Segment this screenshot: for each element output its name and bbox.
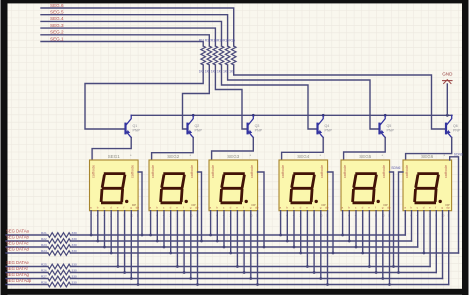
junction on emitter rail	[192, 114, 195, 117]
display SEG1 left cathode pin name	[91, 165, 95, 178]
wire Q2 collector to SEG2 common pin	[152, 137, 194, 160]
wire SEG2 pin e to data bus	[176, 211, 178, 267]
wire SEG2 pin c to data bus	[163, 211, 165, 247]
transistor Q6 designator	[453, 124, 458, 128]
junction SEG2.e	[176, 265, 179, 268]
svg-text:cathode: cathode	[320, 165, 324, 178]
wire SEG6 top-right cathode loop to bus d	[450, 157, 459, 253]
net label SEG DATAb	[6, 235, 30, 240]
junction SEG3.a	[209, 234, 212, 237]
wire GND to rail	[446, 84, 448, 115]
display SEG2 left cathode pin name	[151, 165, 155, 178]
junction SEG5.d	[361, 252, 364, 255]
wire data bus SEG DATAd	[6, 251, 459, 256]
wire net SEG.2 horizontal run and drop to resistor	[41, 35, 209, 46]
display SEG4 decimal point	[315, 200, 318, 203]
junction SEG1.a	[90, 234, 93, 237]
resistor R13 (vertical, base resistor)	[213, 46, 218, 65]
7-segment display SEG6 body	[403, 160, 452, 211]
wire SEG3 pin b to data bus	[216, 211, 218, 241]
transistor Q6 type label PNP	[453, 128, 461, 132]
junction SEG1.c	[103, 246, 106, 249]
junction SEG3.c	[223, 246, 226, 249]
svg-text:R27: R27	[41, 274, 47, 278]
wire SEG5 pin f to data bus	[375, 211, 377, 273]
transistor Q1 type label PNP	[133, 128, 141, 132]
transistor Q6 PNP symbol	[446, 115, 452, 137]
display SEG3 left cathode pin name	[211, 165, 215, 178]
wire SEG6 left cathode down to bus	[399, 172, 404, 273]
junction SEG3.dp	[256, 283, 259, 286]
wire SEG1 pin dp to data bus	[137, 211, 139, 285]
svg-text:cathode: cathode	[131, 165, 135, 178]
wire SEG5 right cathode down to bus	[390, 172, 394, 267]
svg-text:R11: R11	[199, 39, 205, 43]
ground GND label	[442, 72, 453, 77]
junction SEG2.c	[163, 246, 166, 249]
svg-text:SEG6: SEG6	[421, 154, 434, 159]
display SEG4 pin numbers	[279, 214, 328, 218]
svg-text:R22: R22	[41, 237, 47, 241]
display SEG3 pin numbers	[209, 214, 258, 218]
wire SEG1 right cathode down to bus	[138, 172, 142, 235]
junction SEG3.b	[216, 240, 219, 243]
net label SEG DATAd	[6, 247, 30, 252]
display SEG6 left cathode pin name	[405, 165, 409, 178]
wire resistor R15 to Q5 base	[228, 65, 379, 129]
net label SEG.1	[50, 36, 64, 41]
wire SEG6 pin g to data bus end	[442, 211, 444, 279]
svg-text:DP: DP	[322, 203, 326, 207]
net label SEG.3	[50, 23, 64, 28]
junction SEG5.b	[348, 240, 351, 243]
resistor R24 designator	[41, 249, 47, 253]
svg-text:330: 330	[72, 274, 77, 278]
display SEG6 dp corner mark	[446, 203, 450, 207]
wire SEG1 pin d to data bus	[110, 211, 112, 253]
resistor R21 designator	[41, 231, 47, 235]
svg-text:DP: DP	[446, 203, 450, 207]
wire SEG6 pin b to data bus end	[411, 211, 413, 241]
display SEG5 top-right pin marker	[382, 153, 384, 158]
wire SEG2 pin f to data bus	[183, 211, 185, 273]
ground GND power port symbol	[443, 80, 452, 84]
wire resistor R13 to Q3 base	[215, 65, 246, 129]
wire Q1 collector to SEG1 common pin	[92, 137, 131, 160]
svg-text:SEG3: SEG3	[227, 154, 240, 159]
wire SEG1 pin b to data bus	[97, 211, 99, 241]
junction SEG3.g	[249, 277, 252, 280]
7-segment display SEG5 body	[341, 160, 390, 211]
wire SEG6 pin c to data bus end	[417, 211, 419, 247]
transistor Q3 type label PNP	[255, 128, 263, 132]
svg-text:SEG DATAdp: SEG DATAdp	[6, 278, 32, 283]
svg-text:DP: DP	[252, 203, 256, 207]
svg-text:DP: DP	[132, 203, 136, 207]
display SEG2 pin numbers	[149, 214, 198, 218]
svg-text:cathode: cathode	[444, 165, 448, 178]
svg-text:330: 330	[72, 231, 77, 235]
junction SEG2.b	[156, 240, 159, 243]
display SEG4 top-right pin marker	[320, 153, 322, 158]
wire SEG2 pin d to data bus	[170, 211, 172, 253]
display SEG4 right cathode pin name	[320, 165, 324, 178]
resistor R15 (vertical, base resistor)	[225, 46, 230, 65]
display SEG4 designator	[297, 154, 310, 159]
resistor R14 designator label	[217, 39, 223, 43]
7-segment display SEG3 body	[209, 160, 258, 211]
wire SEG6 pin d to data bus end	[423, 211, 425, 253]
wire SEG3 right cathode down to bus	[258, 172, 264, 247]
wire resistor R14 to Q4 base	[222, 65, 317, 129]
svg-text:R21: R21	[41, 231, 47, 235]
svg-text:330: 330	[72, 268, 77, 272]
wire data bus SEG DATAb	[6, 239, 412, 244]
wire SEG6 pin a to data bus end	[404, 211, 406, 235]
junction SEG1.dp	[137, 283, 140, 286]
svg-text:cathode: cathode	[91, 165, 95, 178]
junction SEG2.d	[169, 252, 172, 255]
wire Q5 collector to SEG5 common pin	[344, 137, 386, 160]
wire SEG6 pin e to data bus end	[429, 211, 431, 267]
wire SEG4 pin c to data bus	[293, 211, 295, 247]
junction SEG2.dp	[196, 283, 199, 286]
resistor R12 designator label	[205, 39, 211, 43]
wire SEG4 pin a to data bus	[280, 211, 282, 235]
resistor R23 value	[72, 243, 77, 247]
wire SEG2 pin dp to data bus	[197, 211, 199, 285]
svg-text:DP: DP	[384, 203, 388, 207]
junction SEG4.f	[313, 271, 316, 274]
display SEG5 dp corner mark	[384, 203, 388, 207]
junction SEG1.b	[96, 240, 99, 243]
transistor Q2 type label PNP	[195, 128, 203, 132]
wire resistor R16 to Q6 base	[234, 65, 445, 129]
svg-text:PNP: PNP	[325, 128, 333, 132]
junction SEG5.a	[341, 234, 344, 237]
junction cathode tap	[200, 240, 203, 243]
svg-text:SEG5: SEG5	[359, 154, 372, 159]
display SEG5 left cathode pin name	[343, 165, 347, 178]
display SEG6 digit 8 segments	[415, 174, 439, 203]
svg-text:330: 330	[72, 280, 77, 284]
net label SEG DATAf	[6, 266, 29, 271]
display SEG6 decimal point	[439, 200, 442, 203]
resistor R25 designator	[41, 262, 47, 266]
wire SEG3 pin a to data bus	[210, 211, 212, 235]
resistor R27 value	[72, 274, 77, 278]
junction SEG3.e	[236, 265, 239, 268]
svg-text:SEG DATAd: SEG DATAd	[6, 247, 30, 252]
transistor Q4 PNP symbol	[318, 115, 324, 137]
wire SEG4 pin e to data bus	[306, 211, 308, 267]
resistor R15 designator label	[223, 39, 229, 43]
display SEG3 dp corner mark	[252, 203, 256, 207]
junction SEG5.f	[375, 271, 378, 274]
display SEG4 dp corner mark	[322, 203, 326, 207]
resistor R14 value label	[217, 70, 222, 74]
transistor Q3 PNP symbol	[248, 115, 254, 137]
svg-text:SEG4: SEG4	[297, 154, 310, 159]
wire SEG5 pin d to data bus	[362, 211, 364, 253]
svg-text:SEG DATAf: SEG DATAf	[6, 266, 29, 271]
svg-text:R25: R25	[41, 262, 47, 266]
junction cathode tap	[392, 265, 395, 268]
net label SEG DATAc	[6, 241, 29, 246]
wire data bus SEG DATAa	[6, 233, 405, 238]
display SEG4 segment pin names a-dp	[280, 206, 329, 210]
transistor Q5 designator	[387, 124, 392, 128]
junction cathode tap	[397, 271, 400, 274]
wire Q3 collector to SEG3 common pin	[212, 137, 254, 160]
wire data bus SEG DATAe	[6, 264, 430, 269]
resistor R24 value	[72, 249, 77, 253]
display SEG1 digit 8 segments	[101, 174, 125, 203]
net label SEG DATAe	[6, 260, 30, 265]
svg-text:SEG1: SEG1	[108, 154, 121, 159]
junction on emitter rail	[322, 114, 325, 117]
wire SEG4 pin d to data bus	[300, 211, 302, 253]
wire SEG4 pin f to data bus	[313, 211, 315, 273]
display SEG2 dp corner mark	[192, 203, 196, 207]
junction SEG4.a	[279, 234, 282, 237]
transistor Q5 PNP symbol	[380, 115, 386, 137]
transistor Q1 PNP symbol	[126, 115, 132, 137]
svg-text:SEG DATAb: SEG DATAb	[6, 235, 30, 240]
resistor R16 value label	[229, 70, 234, 74]
junction cathode tap	[263, 246, 266, 249]
display SEG6 top-right pin marker	[444, 153, 446, 158]
resistor R22 designator	[41, 237, 47, 241]
wire Q4 collector to SEG4 common pin	[282, 137, 324, 160]
wire SEG6 pin f to data bus end	[435, 211, 437, 273]
wire SEG1 pin g to data bus	[130, 211, 132, 279]
7-segment display SEG1 body	[90, 160, 139, 211]
7-segment display SEG2 body	[149, 160, 198, 211]
display SEG2 designator	[167, 154, 180, 159]
svg-text:R24: R24	[41, 249, 47, 253]
junction SEG2.f	[183, 271, 186, 274]
junction cathode tap	[332, 252, 335, 255]
wire SEG5 pin a to data bus	[342, 211, 344, 235]
net label SEG.2	[50, 30, 64, 35]
display SEG1 top-right pin marker	[130, 153, 132, 158]
svg-text:PNP: PNP	[255, 128, 263, 132]
display SEG5 decimal point	[377, 200, 380, 203]
svg-text:SEG.6: SEG.6	[50, 3, 64, 8]
resistor R23 designator	[41, 243, 47, 247]
junction on emitter rail	[384, 114, 387, 117]
display SEG2 segment pin names a-dp	[150, 206, 199, 210]
transistor Q5 type label PNP	[387, 128, 395, 132]
net label SEG.6	[50, 3, 64, 8]
svg-text:R26: R26	[41, 268, 47, 272]
junction SEG4.b	[286, 240, 289, 243]
junction SEG2.a	[149, 234, 152, 237]
junction SEG3.d	[229, 252, 232, 255]
svg-text:SEG DATAg: SEG DATAg	[6, 272, 30, 277]
display SEG6 right cathode pin name	[444, 165, 448, 178]
junction SEG4.c	[293, 246, 296, 249]
transistor Q3 designator	[255, 124, 260, 128]
wire SEG5 pin dp to data bus	[389, 211, 391, 285]
display SEG5 pin numbers	[341, 214, 390, 218]
resistor R12 value label	[205, 70, 210, 74]
display SEG5 digit 8 segments	[353, 174, 377, 203]
display SEG2 digit 8 segments	[161, 174, 185, 203]
transistor Q2 designator	[195, 124, 200, 128]
wire SEG5 pin b to data bus	[348, 211, 350, 241]
display SEG3 right cathode pin name	[250, 165, 254, 178]
svg-text:330: 330	[72, 249, 77, 253]
svg-text:PNP: PNP	[133, 128, 141, 132]
resistor R12 (vertical, base resistor)	[207, 46, 212, 65]
wire SEG1 pin f to data bus	[124, 211, 126, 273]
svg-text:DP: DP	[192, 203, 196, 207]
junction SEG5.g	[381, 277, 384, 280]
resistor R28 value	[72, 280, 77, 284]
svg-text:R28: R28	[41, 280, 47, 284]
junction GND tap on rail	[446, 114, 449, 117]
wire SEG4 pin b to data bus	[286, 211, 288, 241]
svg-text:cathode: cathode	[382, 165, 386, 178]
transistor Q2 PNP symbol	[188, 115, 194, 137]
wire emitter supply rail	[131, 114, 452, 116]
wire data bus SEG DATAdp	[6, 282, 449, 287]
resistor R11 value label	[199, 70, 204, 74]
wire net SEG.6 horizontal run and drop to resistor	[41, 8, 234, 46]
wire SEG3 pin dp to data bus	[257, 211, 259, 285]
svg-text:PNP: PNP	[387, 128, 395, 132]
display SEG1 designator	[108, 154, 121, 159]
wire net SEG.3 horizontal run and drop to resistor	[41, 28, 215, 46]
wire data bus SEG DATAg	[6, 276, 443, 281]
svg-text:PNP: PNP	[195, 128, 203, 132]
wire SEG1 pin e to data bus	[117, 211, 119, 267]
svg-text:R23: R23	[41, 243, 47, 247]
wire SEG3 pin e to data bus	[236, 211, 238, 267]
display SEG1 decimal point	[125, 200, 128, 203]
resistor R27 designator	[41, 274, 47, 278]
wire SEG2 pin b to data bus	[156, 211, 158, 241]
wire data bus SEG DATAc	[6, 245, 418, 250]
display SEG3 decimal point	[245, 200, 248, 203]
svg-text:330: 330	[72, 243, 77, 247]
svg-text:cathode: cathode	[405, 165, 409, 178]
wire SEG2 pin g to data bus	[190, 211, 192, 279]
wire SEG2 pin a to data bus	[150, 211, 152, 235]
wire SEG4 pin dp to data bus	[327, 211, 329, 285]
wire SEG5 pin c to data bus	[355, 211, 357, 247]
resistor R28 designator	[41, 280, 47, 284]
svg-text:R16: R16	[229, 39, 235, 43]
display SEG1 right cathode pin name	[131, 165, 135, 178]
svg-text:cathode: cathode	[190, 165, 194, 178]
junction SEG2.g	[189, 277, 192, 280]
svg-text:SDN6: SDN6	[454, 152, 463, 156]
svg-text:330: 330	[72, 262, 77, 266]
resistor R15 value label	[223, 70, 228, 74]
display SEG2 decimal point	[185, 200, 188, 203]
net label SEG.5	[50, 10, 64, 15]
svg-text:SEG.4: SEG.4	[50, 16, 64, 21]
svg-text:cathode: cathode	[281, 165, 285, 178]
wire SEG1 pin c to data bus	[104, 211, 106, 247]
display SEG3 segment pin names a-dp	[210, 206, 259, 210]
wire SEG3 pin c to data bus	[223, 211, 225, 247]
junction SEG5.c	[355, 246, 358, 249]
resistor R21 value	[72, 231, 77, 235]
wire resistor R11 to Q1 base	[85, 65, 203, 129]
display SEG1 pin numbers	[90, 214, 139, 218]
display SEG1 segment pin names a-dp	[90, 206, 139, 210]
resistor R22 value	[72, 237, 77, 241]
wire net SEG.4 horizontal run and drop to resistor	[41, 21, 222, 46]
junction SEG6.d on data bus d	[423, 252, 426, 255]
resistor R13 value label	[211, 70, 216, 74]
wire SEG5 pin e to data bus	[368, 211, 370, 267]
net label SDN6 left	[391, 166, 400, 170]
resistor R11 (vertical, base resistor)	[201, 46, 206, 65]
display SEG5 designator	[359, 154, 372, 159]
svg-text:SEG.1: SEG.1	[50, 36, 64, 41]
resistor R14 (vertical, base resistor)	[219, 46, 224, 65]
resistor R11 designator label	[199, 39, 205, 43]
display SEG3 top-right pin marker	[250, 153, 252, 158]
display SEG2 top-right pin marker	[190, 153, 192, 158]
wire SEG3 pin f to data bus	[243, 211, 245, 273]
display SEG5 segment pin names a-dp	[342, 206, 391, 210]
display SEG3 digit 8 segments	[221, 174, 245, 203]
svg-text:cathode: cathode	[343, 165, 347, 178]
svg-text:SEG DATAc: SEG DATAc	[6, 241, 29, 246]
junction SEG4.dp	[326, 283, 329, 286]
display SEG6 designator	[421, 154, 434, 159]
wire resistor R12 to Q2 base	[183, 65, 210, 129]
junction SEG1.e	[117, 265, 120, 268]
junction SEG4.e	[306, 265, 309, 268]
transistor Q1 designator	[133, 124, 138, 128]
display SEG4 digit 8 segments	[291, 174, 315, 203]
wire SEG1 pin a to data bus	[90, 211, 92, 235]
svg-text:SEG.3: SEG.3	[50, 23, 64, 28]
display SEG5 right cathode pin name	[382, 165, 386, 178]
svg-text:SEG DATAe: SEG DATAe	[6, 260, 30, 265]
transistor Q4 type label PNP	[325, 128, 333, 132]
net label SEG.4	[50, 16, 64, 21]
wire SEG4 pin g to data bus	[320, 211, 322, 279]
svg-text:PNP: PNP	[453, 128, 461, 132]
junction SEG4.g	[319, 277, 322, 280]
svg-text:SDN6: SDN6	[391, 166, 400, 170]
resistor R25 value	[72, 262, 77, 266]
resistor R13 designator label	[211, 39, 217, 43]
wire SEG2 right cathode down to bus	[198, 172, 202, 241]
display SEG2 right cathode pin name	[190, 165, 194, 178]
svg-text:SEG.2: SEG.2	[50, 30, 64, 35]
svg-text:cathode: cathode	[151, 165, 155, 178]
wire SEG4 right cathode down to bus	[328, 172, 333, 253]
junction on emitter rail	[252, 114, 255, 117]
svg-text:cathode: cathode	[211, 165, 215, 178]
junction SEG5.dp	[388, 283, 391, 286]
wire SEG5 pin g to data bus	[382, 211, 384, 279]
junction SEG1.d	[110, 252, 113, 255]
wire Q6 collector to SEG6 common pin	[406, 137, 452, 160]
junction SEG1.g	[130, 277, 133, 280]
resistor R26 designator	[41, 268, 47, 272]
svg-text:GND: GND	[442, 72, 453, 77]
